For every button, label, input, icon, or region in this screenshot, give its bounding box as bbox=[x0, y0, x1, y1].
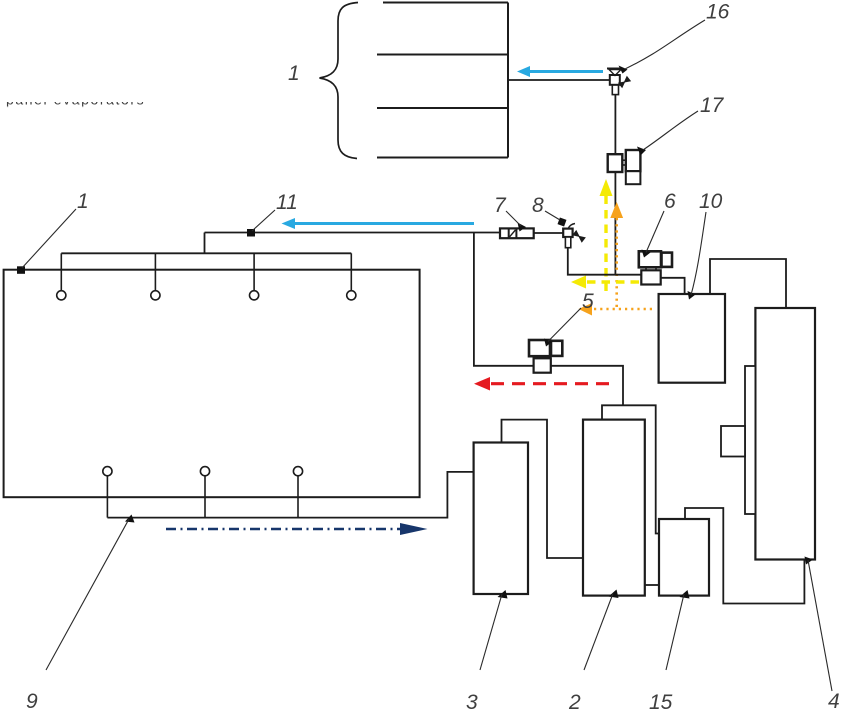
top distribution manifold bbox=[61, 252, 351, 254]
leader + label 16 bbox=[619, 66, 628, 74]
svg-text:8: 8 bbox=[532, 194, 544, 217]
yellow dashed up arrow bbox=[600, 179, 613, 291]
evaporator drop 4 bbox=[350, 253, 352, 290]
leader + label 4 bbox=[805, 557, 814, 565]
cyan flow arrow (top, into shelves) bbox=[517, 66, 603, 77]
wire valve8 down and to component 6 bbox=[568, 248, 642, 275]
svg-text:15: 15 bbox=[649, 691, 673, 714]
svg-text:4: 4 bbox=[828, 690, 840, 713]
shelf evaporator unit (item 1 top) bbox=[377, 3, 508, 158]
leader + label 2 bbox=[609, 590, 619, 599]
svg-text:16: 16 bbox=[706, 1, 730, 24]
wire component 6 to receiver 10 bbox=[661, 278, 685, 294]
svg-text:1: 1 bbox=[77, 190, 89, 213]
component 17 (drier) bbox=[608, 150, 641, 184]
wire receiver 10 to condenser 4 top bbox=[710, 259, 786, 308]
component 5 (thermostat regulator) bbox=[529, 340, 562, 373]
suction header from chamber manifold to valve 7 bbox=[205, 232, 501, 234]
valve 16 bbox=[607, 69, 630, 95]
svg-text:7: 7 bbox=[494, 194, 507, 217]
evaporator drop 1 bbox=[60, 253, 62, 290]
cold chamber (item 1) bbox=[4, 270, 420, 498]
svg-text:9: 9 bbox=[26, 690, 38, 713]
svg-text:11: 11 bbox=[276, 191, 298, 214]
leader + label 3 bbox=[498, 590, 508, 599]
cyan suction arrow (to chamber) bbox=[282, 218, 475, 229]
svg-text:2: 2 bbox=[568, 691, 581, 714]
svg-text:3: 3 bbox=[466, 691, 478, 714]
wire box2 to box15 bbox=[645, 584, 659, 586]
leader + label 17 bbox=[637, 147, 646, 156]
svg-text:10: 10 bbox=[699, 190, 723, 213]
leader + label 6 bbox=[642, 250, 651, 258]
liquid line: junction down, across to boxes 2/15 bbox=[474, 233, 623, 406]
bottom drop 1 bbox=[106, 476, 108, 518]
navy dash-dot arrow (return flow, rightward) bbox=[166, 523, 428, 535]
wire separator 15 to condenser 4 bbox=[685, 508, 804, 604]
leader + label 5 bbox=[544, 339, 553, 347]
component 6 (regulator) bbox=[639, 251, 672, 284]
valve 8 (angle valve) bbox=[563, 224, 585, 248]
evaporator drop 3 bbox=[253, 253, 255, 290]
main vertical pipe from valve 16 bbox=[614, 95, 616, 275]
orange up arrow with dotted tail bbox=[610, 202, 623, 309]
wire tee above box 2 bbox=[602, 405, 659, 533]
brace grouping shelves bbox=[320, 3, 359, 159]
red dashed arrow (hot gas, leftward) bbox=[474, 377, 609, 391]
wire compressor 3 discharge to compressor 2 bbox=[502, 420, 584, 558]
orange dotted horizontal with left arrow (label 5 flow) bbox=[579, 303, 653, 316]
leader + label 8 bbox=[558, 218, 567, 227]
evaporator drop 2 bbox=[154, 253, 156, 290]
receiver 10 bbox=[659, 294, 725, 383]
oil separator 15 bbox=[659, 519, 709, 596]
wire valve7 to valve8 bbox=[534, 232, 564, 234]
compressor 2 bbox=[583, 420, 645, 596]
compressor 3 bbox=[474, 443, 528, 595]
leader + label 15 bbox=[680, 590, 690, 599]
leader + label 7 bbox=[518, 223, 527, 232]
leader + label 10 bbox=[688, 291, 696, 300]
bottom drop 2 bbox=[204, 476, 206, 518]
valve 7 (solenoid) bbox=[500, 228, 534, 238]
svg-text:5: 5 bbox=[582, 290, 594, 313]
bottom return manifold to compressor 3 bbox=[107, 472, 473, 518]
faint erased caption "panel evaporators" bbox=[0, 84, 170, 112]
node + label 9 bbox=[125, 515, 135, 523]
yellow dashed horizontal left arrow bbox=[571, 276, 639, 289]
bottom drop 3 bbox=[297, 476, 299, 518]
wire: shelf unit outlet to valve 16 bbox=[508, 79, 610, 81]
node + label 1 (chamber) bbox=[17, 266, 25, 274]
svg-text:1: 1 bbox=[288, 62, 300, 85]
condenser 4 bbox=[721, 308, 815, 560]
bottom coil circles bbox=[103, 467, 303, 476]
svg-text:6: 6 bbox=[664, 190, 676, 213]
svg-text:17: 17 bbox=[700, 94, 725, 117]
manifold riser bbox=[204, 233, 206, 254]
node + label 11 (suction header) bbox=[247, 229, 255, 237]
ceiling coil connection circles bbox=[57, 291, 356, 300]
